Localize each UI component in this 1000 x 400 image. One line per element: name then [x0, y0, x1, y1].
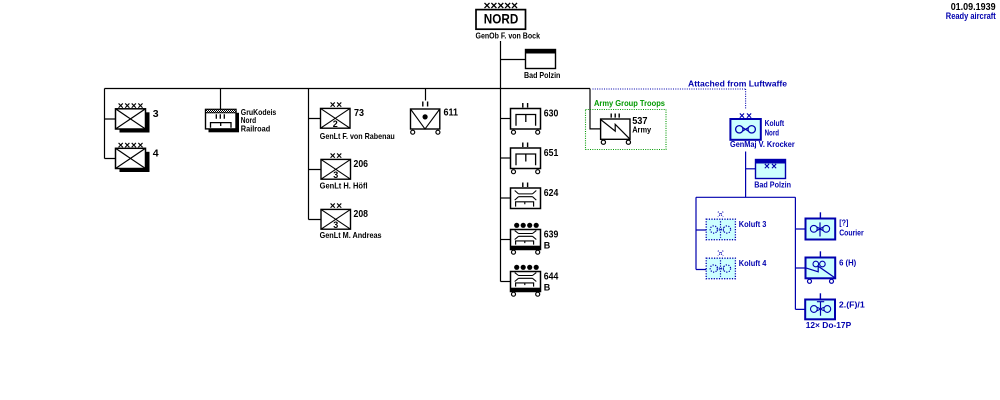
corps 206 — [320, 151, 369, 190]
echelon xxxxx NORD — [484, 0, 519, 12]
wire to Bad Polzin HQ — [501, 59, 526, 61]
svg-text:611: 611 — [444, 107, 459, 118]
wire 644 branch — [501, 281, 511, 283]
svg-text:Army: Army — [632, 124, 651, 134]
regiment 537 — [601, 114, 652, 145]
HQ Koluft Nord — [730, 118, 784, 140]
squadron 2.(F)/1 — [805, 293, 865, 330]
svg-text:Ready aircraft: Ready aircraft — [946, 11, 996, 21]
wire koluft down — [745, 152, 747, 198]
ready aircraft label — [946, 11, 996, 21]
date label — [951, 2, 996, 13]
echelon xx Koluft Nord — [739, 111, 752, 122]
battalion 651 — [511, 143, 559, 174]
svg-text:Railroad: Railroad — [241, 123, 270, 133]
wire to blue Bad Polzin — [746, 168, 756, 170]
battalion 639 — [511, 223, 559, 255]
wire to 537 — [590, 89, 601, 129]
HQ Koluft 3 (projected) — [706, 219, 766, 240]
corps 208 — [320, 201, 382, 240]
wire luftwaffe bus — [696, 196, 795, 198]
commander GenMaj V. Krocker — [730, 139, 795, 149]
label Attached from Luftwaffe — [688, 79, 787, 89]
svg-text:GenLt M. Andreas: GenLt M. Andreas — [320, 230, 382, 240]
svg-text:××: ×× — [764, 162, 777, 173]
svg-text:××: ×× — [330, 201, 343, 212]
svg-text:Bad Polzin: Bad Polzin — [524, 70, 560, 80]
svg-text:639: 639 — [544, 229, 559, 240]
svg-text:GenOb F. von Bock: GenOb F. von Bock — [476, 30, 541, 40]
wire left luftwaffe branch — [696, 197, 707, 269]
dotted wire from luftwaffe — [593, 89, 746, 109]
svg-text:Army Group Troops: Army Group Troops — [594, 98, 665, 108]
svg-text:651: 651 — [544, 148, 559, 159]
svg-text:××: ×× — [330, 100, 343, 111]
svg-text:208: 208 — [354, 209, 369, 220]
svg-text:3: 3 — [333, 220, 338, 230]
wire 611 — [425, 89, 427, 101]
svg-text:206: 206 — [354, 159, 369, 170]
svg-text:Attached from Luftwaffe: Attached from Luftwaffe — [688, 79, 787, 89]
svg-text:73: 73 — [354, 108, 364, 119]
wire main bus — [105, 88, 591, 90]
svg-text:644: 644 — [544, 271, 559, 282]
squadron 6 (H) — [806, 251, 857, 283]
HQ Koluft 4 (projected) — [706, 258, 766, 279]
svg-text:3: 3 — [153, 108, 159, 120]
svg-text:××××: ×××× — [118, 101, 144, 112]
commander GenOb F. von Bock — [476, 30, 541, 40]
svg-text:12× Do-17P: 12× Do-17P — [806, 320, 852, 330]
svg-text:3: 3 — [333, 170, 338, 180]
svg-text:Courier: Courier — [839, 228, 864, 238]
army 3 — [116, 101, 159, 132]
svg-text:[?]: [?] — [839, 218, 848, 228]
svg-text:Koluft 4: Koluft 4 — [739, 258, 767, 268]
svg-text:B: B — [544, 240, 551, 250]
svg-text:6 (H): 6 (H) — [839, 257, 856, 267]
svg-text:2: 2 — [333, 119, 338, 129]
wire 624 branch — [501, 197, 511, 199]
army 4 — [116, 141, 159, 172]
HQ box NORD — [476, 10, 526, 30]
svg-text:GenLt F. von Rabenau: GenLt F. von Rabenau — [320, 131, 395, 141]
svg-text:××××: ×××× — [118, 141, 144, 152]
svg-text:4: 4 — [153, 147, 159, 159]
HQ location Bad Polzin (Luftwaffe) — [754, 159, 791, 190]
echelon x Koluft 3 (dotted) — [718, 212, 723, 217]
squadron courier — [806, 212, 865, 239]
svg-text:630: 630 — [544, 108, 559, 119]
wire 639 branch — [501, 239, 511, 241]
wire corps column — [309, 89, 322, 220]
svg-text:GenLt H. Höfl: GenLt H. Höfl — [320, 181, 368, 191]
svg-text:B: B — [544, 282, 551, 292]
wire GruKodeis — [220, 89, 222, 110]
wire 651 branch — [501, 157, 511, 159]
battalion 611 — [411, 102, 459, 135]
wire NORD down — [500, 41, 502, 282]
wire left branch — [105, 89, 116, 159]
svg-text:624: 624 — [544, 188, 559, 199]
battalion 624 — [511, 183, 559, 209]
corps 73 — [320, 100, 395, 141]
wire right luftwaffe branch — [795, 197, 805, 309]
battalion 630 — [511, 103, 559, 134]
HQ location box Bad Polzin — [524, 49, 560, 80]
svg-text:NORD: NORD — [484, 10, 519, 26]
label Army Group Troops — [594, 98, 665, 108]
unit GruKodeis Nord Railroad — [206, 107, 277, 133]
svg-text:Koluft 3: Koluft 3 — [739, 219, 767, 229]
svg-text:Nord: Nord — [765, 128, 779, 138]
echelon x Koluft 4 (dotted) — [718, 251, 723, 256]
svg-text:Koluft: Koluft — [765, 118, 785, 128]
dotted frame army group troops — [586, 110, 667, 150]
svg-text:GenMaj V. Krocker: GenMaj V. Krocker — [730, 139, 795, 149]
svg-text:2.(F)/1: 2.(F)/1 — [839, 299, 865, 309]
wire 630 branch — [501, 118, 511, 120]
battalion 644 — [511, 265, 559, 297]
svg-text:Bad Polzin: Bad Polzin — [754, 180, 791, 190]
svg-text:××: ×× — [330, 151, 343, 162]
